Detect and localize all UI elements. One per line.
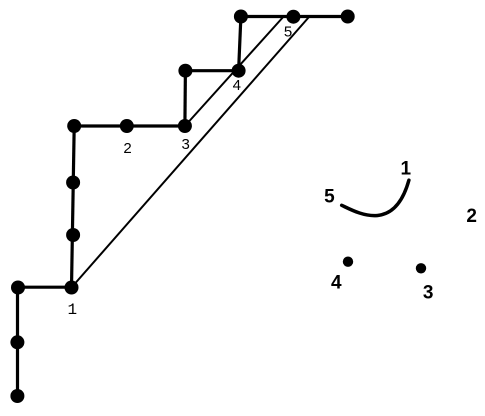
node dot left column b xyxy=(66,228,80,242)
node dot left column c (step 1) xyxy=(65,281,79,295)
node dot bottom column b xyxy=(10,389,24,403)
node dot row3 right (step 3) xyxy=(178,119,192,133)
diagonal line from node 1 to top line xyxy=(72,17,310,288)
svg-text:3: 3 xyxy=(423,282,434,303)
node dot row2 right (step 4) xyxy=(232,64,246,78)
svg-text:5: 5 xyxy=(284,23,292,40)
wire long vertical left column xyxy=(72,126,75,288)
svg-text:1: 1 xyxy=(401,159,412,180)
svg-text:5: 5 xyxy=(324,186,335,207)
node dot bottom row left xyxy=(11,281,25,295)
wire horizontal tread step 1 xyxy=(18,286,72,289)
node dot row3 middle (step 2) xyxy=(120,119,134,133)
node dot row3 left xyxy=(67,119,81,133)
small dot near label 3 xyxy=(416,263,426,273)
svg-text:4: 4 xyxy=(233,77,241,94)
svg-text:2: 2 xyxy=(123,140,131,157)
curve swoosh from 5 to 1 xyxy=(342,180,409,215)
node dot left column a xyxy=(66,176,80,190)
wire vertical riser step 5 xyxy=(239,17,241,71)
svg-text:4: 4 xyxy=(331,273,342,294)
wire bottom vertical column xyxy=(16,288,19,397)
svg-text:2: 2 xyxy=(466,206,477,227)
svg-text:1: 1 xyxy=(67,301,77,319)
node dot row2 left xyxy=(178,64,192,78)
node dot top row left xyxy=(234,10,248,24)
node dot bottom column a xyxy=(10,335,24,349)
wire vertical riser step 4 xyxy=(183,71,187,126)
wire top horizontal step 5 xyxy=(241,15,348,18)
small dot near label 4 xyxy=(343,257,353,267)
node dot top row middle (step 5) xyxy=(286,10,300,24)
wire horizontal tread step 4 xyxy=(185,69,238,72)
wire horizontal tread steps 2-3 xyxy=(74,124,185,127)
svg-text:3: 3 xyxy=(182,136,190,153)
node dot top row right xyxy=(341,10,355,24)
diagonal line from node 3 to top line xyxy=(185,17,284,127)
